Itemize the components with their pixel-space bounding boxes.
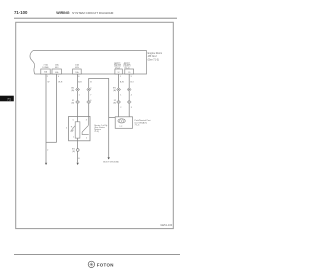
svg-text:2: 2 bbox=[47, 76, 49, 78]
svg-text:(See 71-3): (See 71-3) bbox=[148, 58, 159, 61]
svg-text:3: 3 bbox=[131, 76, 133, 78]
svg-text:3: 3 bbox=[86, 119, 88, 121]
svg-text:1: 1 bbox=[79, 95, 81, 97]
svg-text:1 2: 1 2 bbox=[119, 126, 123, 128]
svg-text:4: 4 bbox=[131, 95, 133, 97]
svg-text:FOTON: FOTON bbox=[97, 262, 114, 267]
svg-text:2: 2 bbox=[120, 107, 122, 109]
svg-text:4: 4 bbox=[58, 76, 60, 78]
svg-text:(A): (A) bbox=[113, 89, 116, 92]
svg-text:WIRING: WIRING bbox=[56, 11, 70, 15]
svg-text:W: W bbox=[48, 82, 50, 84]
svg-text:1: 1 bbox=[73, 137, 75, 139]
svg-text:5: 5 bbox=[66, 127, 68, 129]
svg-text:B-R: B-R bbox=[78, 82, 82, 84]
svg-text:B-Y: B-Y bbox=[131, 82, 135, 84]
svg-text:2: 2 bbox=[47, 149, 49, 151]
svg-text:B-W: B-W bbox=[120, 82, 124, 84]
svg-text:7.5A: 7.5A bbox=[43, 64, 48, 67]
svg-text:1: 1 bbox=[120, 76, 122, 78]
svg-text:E: E bbox=[78, 158, 80, 160]
svg-text:71-8): 71-8) bbox=[94, 131, 99, 133]
svg-text:EFI: EFI bbox=[55, 67, 59, 69]
svg-text:5: 5 bbox=[73, 119, 75, 121]
svg-text:15A: 15A bbox=[55, 64, 59, 67]
svg-text:71: 71 bbox=[7, 97, 11, 101]
svg-text:(B): (B) bbox=[113, 103, 116, 105]
svg-text:6: 6 bbox=[78, 76, 80, 78]
svg-text:10A: 10A bbox=[75, 64, 79, 67]
svg-text:(B): (B) bbox=[72, 151, 75, 153]
svg-text:3: 3 bbox=[131, 107, 133, 109]
svg-text:GE51-100: GE51-100 bbox=[160, 223, 172, 227]
svg-text:(71-2): (71-2) bbox=[115, 67, 120, 69]
svg-text:(B): (B) bbox=[72, 103, 75, 105]
svg-text:B: B bbox=[90, 82, 92, 84]
svg-text:2: 2 bbox=[86, 138, 88, 140]
svg-text:SYSTEM CIRCUIT DIAGRAM: SYSTEM CIRCUIT DIAGRAM bbox=[72, 11, 114, 15]
svg-text:BODY GROUND: BODY GROUND bbox=[103, 161, 119, 163]
svg-text:IGN: IGN bbox=[75, 67, 79, 69]
svg-text:(71-2): (71-2) bbox=[124, 67, 129, 69]
svg-text:7: 7 bbox=[90, 95, 92, 97]
svg-text:7 1-6: 7 1-6 bbox=[135, 124, 141, 126]
svg-text:DOME: DOME bbox=[42, 67, 49, 69]
svg-text:(A): (A) bbox=[72, 89, 75, 92]
svg-text:4: 4 bbox=[90, 88, 92, 90]
svg-text:1: 1 bbox=[120, 95, 122, 97]
svg-text:6: 6 bbox=[90, 100, 92, 102]
svg-text:W-R: W-R bbox=[58, 82, 63, 84]
svg-text:71-100: 71-100 bbox=[14, 10, 28, 15]
